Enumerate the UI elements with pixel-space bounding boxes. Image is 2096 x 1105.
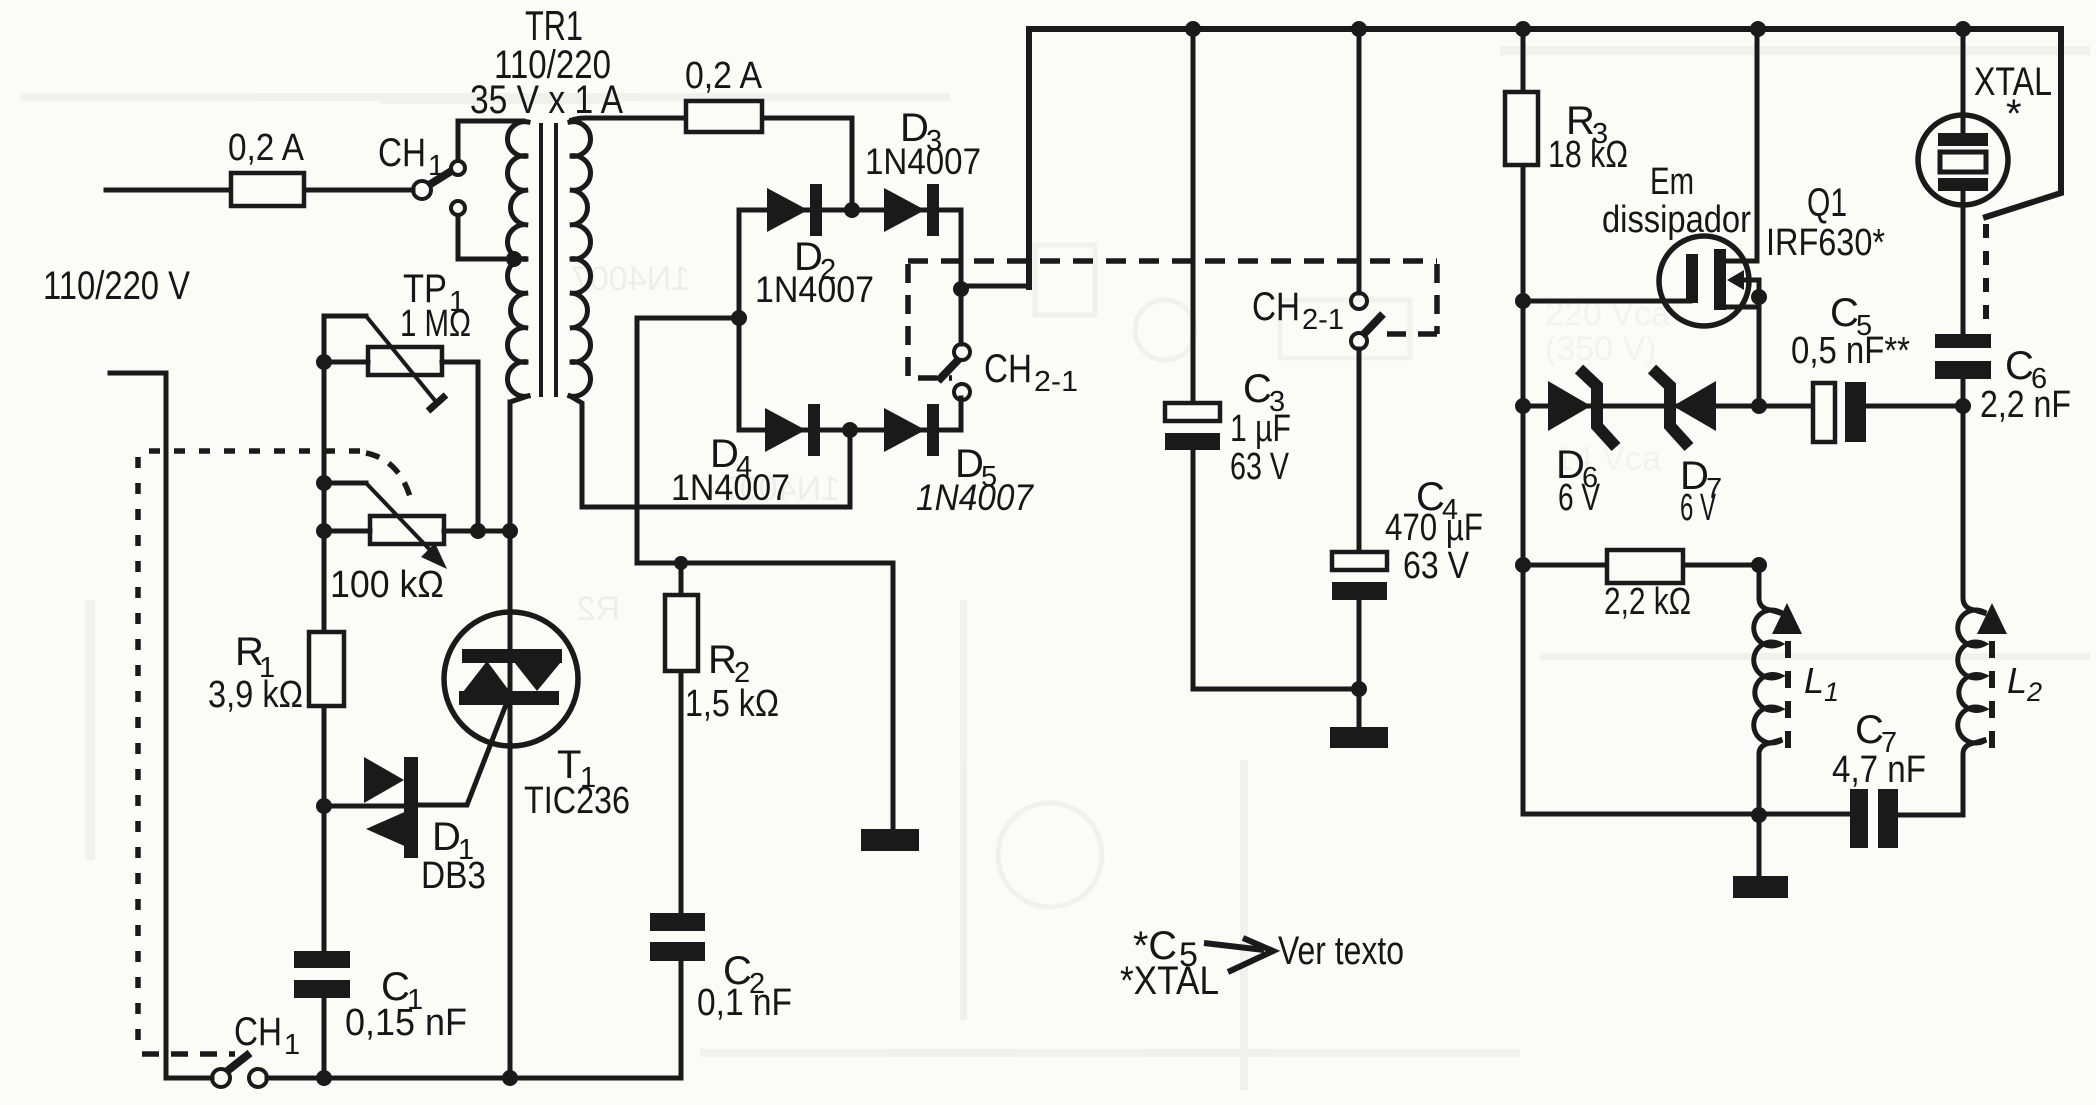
triac T1 TIC236 bbox=[444, 612, 630, 822]
wire bottom right rail bbox=[1523, 812, 1850, 817]
svg-text:0,15 nF: 0,15 nF bbox=[345, 1002, 467, 1044]
wire R3 branch vertical bbox=[1521, 29, 1526, 814]
wire XTAL to C6 bbox=[1961, 191, 1966, 334]
svg-text:0,2 A: 0,2 A bbox=[685, 55, 763, 97]
resistor R1 bbox=[208, 630, 344, 716]
svg-text:2,2 kΩ: 2,2 kΩ bbox=[1604, 581, 1691, 623]
resistor 2,2 kΩ bbox=[1604, 550, 1691, 623]
transformer TR1 primary winding bbox=[507, 122, 528, 397]
wire bridge top row bbox=[739, 210, 961, 286]
dashed gang link CH2 bbox=[908, 258, 1437, 264]
ground (C3/C4) bbox=[1330, 727, 1388, 748]
fuse 0,2 A (secondary) bbox=[685, 55, 763, 132]
node bus R3 branch bbox=[1515, 21, 1531, 37]
svg-text:1N4007: 1N4007 bbox=[916, 477, 1034, 518]
wire C3 to ground node bbox=[1193, 450, 1359, 689]
svg-text:1: 1 bbox=[1824, 677, 1839, 707]
wire bus to C3 bbox=[1191, 29, 1196, 403]
svg-text:Q1: Q1 bbox=[1807, 181, 1847, 225]
label TR1 ratings bbox=[470, 2, 623, 122]
svg-text:CH: CH bbox=[234, 1010, 282, 1054]
svg-text:2-1: 2-1 bbox=[1034, 366, 1078, 398]
svg-text:L: L bbox=[2007, 660, 2027, 701]
svg-text:63 V: 63 V bbox=[1403, 545, 1470, 587]
svg-text:110/220 V: 110/220 V bbox=[43, 264, 190, 308]
zener D6 bbox=[1548, 369, 1616, 519]
wire L1 top bbox=[1759, 565, 1780, 613]
dashed XTAL to C6 bbox=[1983, 224, 1989, 330]
wire bridge bottom row bbox=[739, 398, 961, 430]
wire secondary top to fuse bbox=[572, 118, 852, 210]
svg-text:CH: CH bbox=[1252, 285, 1300, 329]
svg-text:CH: CH bbox=[984, 347, 1032, 391]
svg-text:35 V x 1 A: 35 V x 1 A bbox=[470, 78, 623, 122]
svg-text:1N4007: 1N4007 bbox=[865, 141, 981, 182]
diode D2 bbox=[755, 184, 874, 310]
svg-text:1: 1 bbox=[284, 1029, 300, 1061]
diac D1 DB3 bbox=[324, 702, 507, 897]
wire L1 bottom to ground bbox=[1751, 740, 1780, 876]
svg-text:4,7 nF: 4,7 nF bbox=[1832, 749, 1926, 791]
transformer TR1 secondary winding bbox=[570, 122, 591, 397]
svg-text:6 V: 6 V bbox=[1680, 487, 1716, 529]
capacitor C7 bbox=[1832, 708, 1926, 848]
ground (L1) bbox=[1733, 876, 1788, 898]
wire Q1 drain bbox=[1727, 29, 1757, 261]
transformer TR1 core bbox=[541, 123, 556, 397]
dotted gang line horizontal bbox=[149, 448, 362, 454]
wire triac column bbox=[508, 402, 513, 1078]
wire bridge left vertical bbox=[737, 210, 742, 430]
trimpot TP1 bbox=[316, 267, 478, 531]
dashed link to CH1 bbox=[142, 1051, 235, 1057]
label 110/220 V bbox=[43, 264, 190, 308]
svg-text:470 µF: 470 µF bbox=[1385, 507, 1483, 549]
wire CH1 throw to primary top bbox=[458, 121, 523, 160]
svg-text:2: 2 bbox=[2026, 677, 2042, 707]
switch CH1 (mains pole) bbox=[378, 131, 465, 215]
svg-text:1 µF: 1 µF bbox=[1230, 408, 1291, 450]
svg-text:Em: Em bbox=[1650, 161, 1694, 203]
dotted gang line vertical bbox=[135, 457, 141, 1049]
node bus C4 branch bbox=[1351, 21, 1367, 37]
switch CH2-1 section b bbox=[1252, 285, 1383, 349]
svg-text:*XTAL: *XTAL bbox=[1120, 959, 1219, 1003]
svg-text:3,9 kΩ: 3,9 kΩ bbox=[208, 674, 303, 716]
capacitor C1 bbox=[294, 951, 467, 1078]
svg-text:C: C bbox=[1830, 291, 1859, 335]
svg-text:TIC236: TIC236 bbox=[524, 780, 630, 822]
svg-text:2-1: 2-1 bbox=[1302, 304, 1344, 336]
wire secondary bottom to bridge bbox=[570, 396, 850, 507]
resistor R3 bbox=[1505, 92, 1628, 176]
node bridge DC minus bbox=[731, 310, 747, 326]
svg-text:1,5 kΩ: 1,5 kΩ bbox=[685, 683, 779, 725]
switch CH2-1 section a bbox=[938, 344, 1078, 400]
svg-text:R2: R2 bbox=[577, 590, 620, 628]
svg-text:L: L bbox=[1804, 660, 1824, 701]
svg-text:1N4007: 1N4007 bbox=[671, 467, 790, 508]
wire C7 to L2 bbox=[1898, 740, 1984, 815]
svg-text:(350 V): (350 V) bbox=[1545, 330, 1657, 368]
wire main supply bus bbox=[1029, 26, 2061, 32]
svg-text:C: C bbox=[1243, 367, 1272, 411]
svg-text:0,2 A: 0,2 A bbox=[228, 127, 305, 169]
svg-text:1N4007: 1N4007 bbox=[755, 269, 874, 310]
wire bottom rail left bbox=[166, 1076, 212, 1081]
svg-text:0,5 nF**: 0,5 nF** bbox=[1791, 330, 1910, 372]
wire bus to CH2-1b bbox=[1357, 29, 1362, 293]
svg-text:CH: CH bbox=[378, 131, 426, 175]
capacitor C6 bbox=[1935, 334, 2071, 426]
node bus XTAL branch bbox=[1955, 21, 1971, 37]
svg-text:1 MΩ: 1 MΩ bbox=[400, 303, 471, 345]
svg-text:dissipador: dissipador bbox=[1602, 199, 1751, 241]
svg-text:TR1: TR1 bbox=[525, 2, 583, 49]
potentiometer 100 kΩ bbox=[316, 475, 518, 606]
diode D3 bbox=[865, 106, 981, 236]
transistor Q1 IRF630 bbox=[1602, 161, 1885, 406]
zener D7 bbox=[1652, 369, 1722, 529]
svg-text:R: R bbox=[708, 638, 737, 682]
wire zener row bbox=[1515, 398, 1767, 414]
svg-text:100 kΩ: 100 kΩ bbox=[330, 564, 444, 606]
flag outline XTAL bbox=[1986, 29, 2061, 217]
svg-text:1: 1 bbox=[428, 150, 444, 182]
svg-text:*: * bbox=[2006, 92, 2022, 136]
crystal XTAL bbox=[1918, 60, 2052, 205]
capacitor C4 bbox=[1332, 475, 1483, 600]
svg-text:6 V: 6 V bbox=[1558, 477, 1600, 519]
wire 2,2k row bbox=[1515, 557, 1767, 573]
svg-text:63 V: 63 V bbox=[1230, 446, 1289, 488]
arrow L1 adjustable bbox=[1772, 603, 1802, 748]
wire D3 node to bus riser bbox=[953, 281, 1029, 344]
wire bottom rail bbox=[267, 1070, 681, 1086]
svg-text:2,2 nF: 2,2 nF bbox=[1980, 384, 2071, 426]
dashed box CH2-1a bbox=[908, 264, 952, 378]
capacitor C3 bbox=[1165, 367, 1291, 488]
node bridge AC top bbox=[844, 202, 860, 218]
inductor L1 bbox=[1754, 610, 1839, 743]
wire C4 to ground bbox=[1351, 600, 1367, 727]
diode D4 bbox=[671, 404, 820, 508]
diode D5 bbox=[884, 404, 1034, 518]
wire bus to XTAL bbox=[1961, 29, 1966, 133]
dashed arc to pot bbox=[366, 453, 411, 500]
svg-text:0,1 nF: 0,1 nF bbox=[697, 982, 792, 1024]
node bridge AC bottom bbox=[842, 422, 858, 438]
svg-text:D: D bbox=[432, 815, 461, 859]
node C5 C6 L2 bbox=[1955, 398, 1971, 414]
capacitor C2 bbox=[650, 913, 792, 1078]
svg-text:C: C bbox=[2005, 344, 2034, 388]
inductor L2 bbox=[1958, 610, 2042, 743]
node primary tap bbox=[506, 251, 522, 267]
svg-text:C: C bbox=[1855, 708, 1884, 752]
node R2 top bbox=[674, 556, 688, 570]
wire L2 top to C6 node bbox=[1963, 406, 1984, 613]
ground (bridge minus) bbox=[861, 829, 919, 851]
wire mains input bottom bbox=[110, 373, 166, 1078]
node bus Q1 drain bbox=[1750, 21, 1766, 37]
svg-text:18 kΩ: 18 kΩ bbox=[1548, 134, 1628, 176]
svg-text:IRF630*: IRF630* bbox=[1766, 222, 1885, 264]
arrow L2 adjustable bbox=[1977, 603, 2007, 748]
svg-text:Ver texto: Ver texto bbox=[1278, 929, 1404, 973]
switch CH1 (second pole) bbox=[212, 1010, 300, 1087]
wire gate feed bbox=[1515, 293, 1690, 309]
svg-text:DB3: DB3 bbox=[421, 855, 486, 897]
fuse 0,2 A (mains) bbox=[228, 127, 305, 206]
wire CH1 throw to primary tap bbox=[458, 216, 518, 259]
wire pot column bbox=[322, 316, 327, 951]
wire bridge minus to R2 top bbox=[637, 318, 893, 829]
wire mains input top bbox=[106, 188, 413, 193]
wire CH2-1b to C4 bbox=[1357, 349, 1362, 552]
wire bus riser bbox=[1026, 29, 1032, 287]
node bus C3 branch bbox=[1185, 21, 1201, 37]
wire primary bottom to triac bbox=[510, 396, 528, 612]
capacitor C5 bbox=[1759, 291, 1963, 442]
dashed box CH2-1b bbox=[1384, 264, 1437, 334]
node diac junction bbox=[316, 798, 332, 814]
note C5 XTAL ver texto bbox=[1120, 924, 1404, 1003]
resistor R2 bbox=[665, 563, 779, 913]
